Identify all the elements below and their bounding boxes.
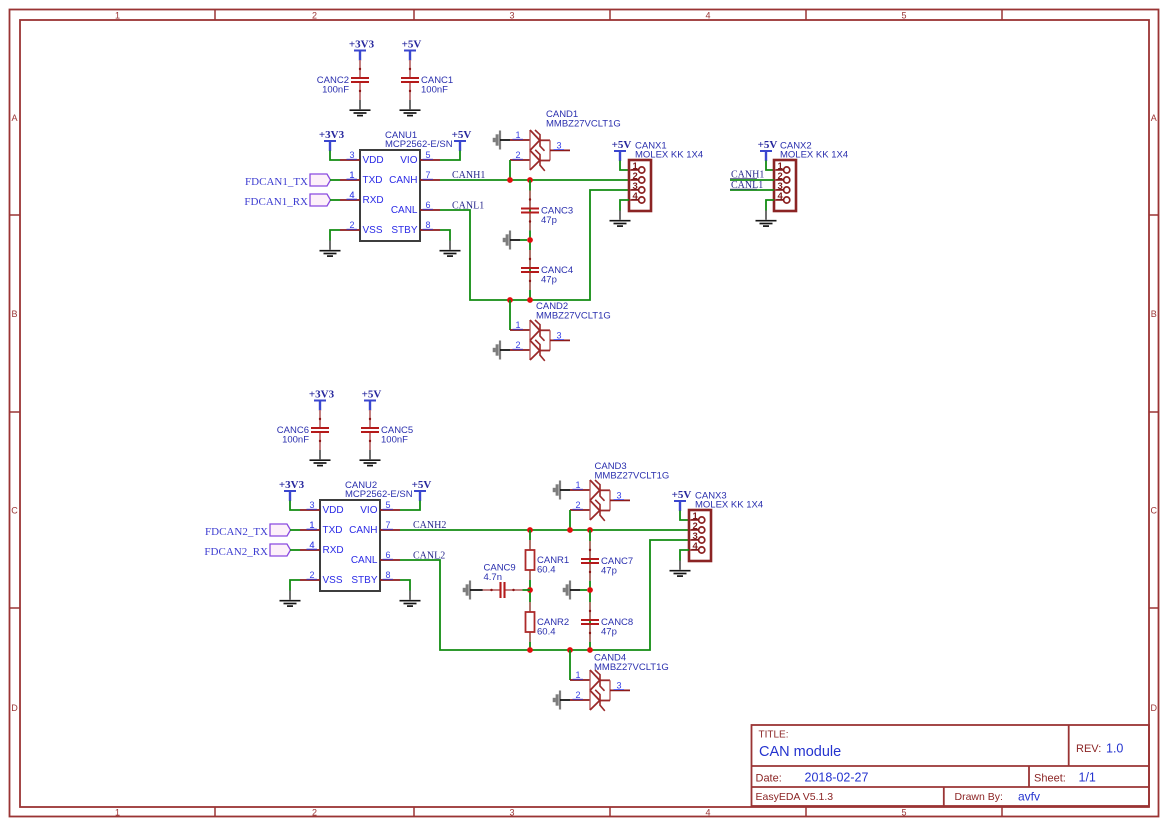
svg-text:5: 5	[425, 150, 430, 160]
svg-text:8: 8	[385, 570, 390, 580]
svg-text:1: 1	[515, 130, 520, 140]
svg-text:A: A	[1151, 113, 1157, 123]
power flag +3V3	[309, 389, 335, 411]
capacitor CANC9 4.7n	[483, 563, 523, 599]
svg-text:TXD: TXD	[363, 175, 383, 186]
svg-text:4: 4	[633, 191, 639, 202]
junction CANH1/CANC3	[527, 177, 533, 183]
wire VSS to ground	[330, 230, 340, 241]
wire CANC chain	[589, 530, 591, 650]
wire CANH2	[400, 529, 689, 531]
title block	[752, 725, 1150, 806]
net label CANH2	[413, 520, 446, 531]
TVS diode CAND2 MMBZ27VCLT1G	[510, 301, 611, 361]
capacitor CANC3 47p	[521, 191, 573, 231]
svg-text:EasyEDA V5.1.3: EasyEDA V5.1.3	[756, 791, 834, 803]
connector CANX3 MOLEX KK 1X4	[689, 491, 763, 562]
svg-text:1: 1	[115, 11, 120, 21]
svg-text:3: 3	[556, 331, 561, 341]
ground CANX2	[756, 211, 777, 227]
junction CANR1/CANR2/CANC9	[527, 587, 533, 593]
svg-text:2018-02-27: 2018-02-27	[805, 771, 869, 785]
svg-text:4.7n: 4.7n	[484, 572, 503, 583]
svg-text:2: 2	[515, 150, 520, 160]
power flag +3V3	[319, 129, 345, 151]
svg-text:CANL: CANL	[351, 555, 378, 566]
ground flag CANC3/CANC4	[504, 231, 520, 250]
wire FDCAN1_TX stub	[330, 179, 340, 181]
svg-text:Date:: Date:	[756, 773, 782, 785]
svg-text:7: 7	[385, 520, 390, 530]
svg-text:A: A	[11, 113, 17, 123]
frame column ticks bottom	[215, 807, 1002, 817]
svg-text:1: 1	[515, 320, 520, 330]
svg-text:2: 2	[575, 500, 580, 510]
capacitor CANC7 47p	[581, 541, 633, 581]
net port FDCAN1_TX	[245, 174, 330, 188]
svg-text:CANH1: CANH1	[452, 170, 485, 181]
svg-text:RXD: RXD	[363, 195, 384, 206]
svg-text:1: 1	[575, 670, 580, 680]
wire FDCAN2_RX stub	[290, 549, 300, 551]
svg-text:CANH2: CANH2	[413, 520, 446, 531]
power flag +3V3	[279, 479, 305, 501]
wire CANH1	[440, 179, 629, 181]
svg-text:4: 4	[705, 11, 710, 21]
svg-text:3: 3	[509, 11, 514, 21]
svg-text:2: 2	[312, 808, 317, 818]
net port FDCAN2_TX	[205, 524, 290, 538]
svg-text:MMBZ27VCLT1G: MMBZ27VCLT1G	[594, 662, 669, 673]
svg-text:1: 1	[115, 808, 120, 818]
frame column ticks top	[215, 10, 1002, 20]
svg-text:5: 5	[901, 11, 906, 21]
svg-text:4: 4	[705, 808, 710, 818]
net label CANL2	[413, 551, 445, 562]
wire VSS to ground CANU2	[290, 580, 300, 591]
wire +5V to VIO CANU2	[400, 501, 420, 511]
svg-text:+5V: +5V	[452, 129, 472, 141]
frame row letters left	[11, 113, 18, 713]
svg-text:STBY: STBY	[391, 225, 417, 236]
svg-text:2: 2	[515, 340, 520, 350]
svg-text:VSS: VSS	[323, 575, 343, 586]
svg-text:MOLEX KK 1X4: MOLEX KK 1X4	[780, 150, 848, 161]
svg-text:3: 3	[349, 150, 354, 160]
svg-text:5: 5	[385, 500, 390, 510]
svg-text:Drawn By:: Drawn By:	[955, 791, 1003, 803]
svg-text:FDCAN2_RX: FDCAN2_RX	[204, 546, 268, 558]
svg-text:FDCAN1_TX: FDCAN1_TX	[245, 176, 308, 188]
IC CANU2 MCP2562-E/SN	[300, 480, 413, 591]
wire CANH1 stub CANX2	[730, 179, 774, 181]
svg-text:Sheet:: Sheet:	[1034, 773, 1066, 785]
svg-text:+5V: +5V	[362, 389, 382, 401]
svg-text:RXD: RXD	[323, 545, 344, 556]
wire CANH1 to CANL1 cap chain	[529, 180, 531, 300]
svg-text:4: 4	[349, 190, 354, 200]
svg-text:100nF: 100nF	[322, 85, 349, 96]
resistor CANR1 60.4	[526, 540, 570, 580]
junction CANH2/CANR1	[527, 527, 533, 533]
ground CANX3	[670, 561, 691, 577]
svg-text:3: 3	[556, 141, 561, 151]
TVS diode CAND1 MMBZ27VCLT1G	[510, 109, 621, 171]
svg-text:4: 4	[309, 540, 314, 550]
ground flag CAND1 pin1	[494, 131, 510, 150]
ground flag CAND3 pin1	[554, 481, 570, 500]
wire CAND1 pin2 to CANH1	[509, 160, 511, 180]
wire +5V to CANX1 pin1	[620, 161, 629, 171]
svg-text:TXD: TXD	[323, 525, 343, 536]
svg-text:1/1: 1/1	[1079, 771, 1096, 785]
junction CANC7/CANC8	[587, 587, 593, 593]
ground VSS CANU1	[320, 241, 341, 257]
svg-text:MCP2562-E/SN: MCP2562-E/SN	[345, 489, 413, 500]
svg-text:47p: 47p	[541, 215, 557, 226]
capacitor CANC8 47p	[581, 602, 633, 642]
svg-text:1.0: 1.0	[1106, 742, 1123, 756]
capacitor CANC1 100nF	[401, 60, 453, 100]
svg-text:D: D	[1151, 703, 1158, 713]
wire CAND2 pin1 from CANL1	[509, 300, 511, 330]
ground flag CAND4 pin2	[554, 691, 570, 710]
svg-text:3: 3	[309, 500, 314, 510]
svg-text:VIO: VIO	[400, 155, 417, 166]
svg-text:6: 6	[385, 550, 390, 560]
junction CANL1/CANC4	[527, 297, 533, 303]
svg-text:CANL2: CANL2	[413, 551, 445, 562]
net label CANH1	[452, 170, 485, 181]
svg-text:7: 7	[425, 170, 430, 180]
ground flag CAND2 pin2	[494, 341, 510, 360]
svg-text:+5V: +5V	[612, 139, 632, 151]
title block texts	[756, 730, 1124, 804]
wire STBY to ground CANU2	[400, 580, 410, 591]
wire +3V3 to VDD	[330, 151, 340, 161]
svg-text:CAN module: CAN module	[759, 744, 841, 760]
power flag +5V	[672, 489, 692, 511]
svg-text:1: 1	[309, 520, 314, 530]
wire CAND3 pin2 to CANH2	[569, 510, 571, 530]
net label CANH1	[730, 170, 764, 181]
svg-text:3: 3	[616, 491, 621, 501]
svg-text:2: 2	[349, 220, 354, 230]
net port FDCAN2_RX	[204, 544, 290, 558]
svg-text:B: B	[1151, 309, 1157, 319]
svg-text:VDD: VDD	[363, 155, 384, 166]
ground below CANC2	[350, 100, 371, 116]
svg-text:VSS: VSS	[363, 225, 383, 236]
svg-text:TITLE:: TITLE:	[759, 730, 789, 741]
svg-text:+3V3: +3V3	[279, 479, 305, 491]
svg-text:CANH: CANH	[389, 175, 417, 186]
wire CANL1 stub CANX2	[730, 189, 774, 191]
wire CANR chain	[529, 530, 531, 650]
svg-text:+3V3: +3V3	[309, 389, 335, 401]
svg-text:+3V3: +3V3	[319, 129, 345, 141]
connector CANX2 MOLEX KK 1X4	[774, 141, 848, 212]
svg-text:MMBZ27VCLT1G: MMBZ27VCLT1G	[546, 119, 621, 130]
frame column numbers top	[115, 11, 907, 21]
wire CANX3 pin4 to ground	[680, 550, 689, 561]
svg-text:1: 1	[575, 480, 580, 490]
svg-text:VIO: VIO	[360, 505, 377, 516]
svg-text:MCP2562-E/SN: MCP2562-E/SN	[385, 139, 453, 150]
svg-text:REV:: REV:	[1076, 743, 1101, 755]
svg-text:4: 4	[693, 541, 699, 552]
power flag +5V	[412, 479, 432, 501]
IC CANU1 MCP2562-E/SN	[340, 130, 453, 241]
svg-text:3: 3	[616, 681, 621, 691]
ground CANX1	[610, 211, 631, 227]
svg-text:+5V: +5V	[758, 139, 778, 151]
svg-text:B: B	[11, 309, 17, 319]
junction CANH1/CAND1	[507, 177, 513, 183]
wire flag to CANC9	[480, 589, 483, 591]
svg-text:47p: 47p	[541, 275, 557, 286]
svg-text:100nF: 100nF	[381, 435, 408, 446]
capacitor CANC2 100nF	[317, 60, 369, 100]
net port FDCAN1_RX	[244, 194, 330, 208]
svg-text:VDD: VDD	[323, 505, 344, 516]
wire CANX1 pin4 to ground	[620, 200, 629, 211]
svg-text:MMBZ27VCLT1G: MMBZ27VCLT1G	[536, 311, 611, 322]
junction CANL2/CANR2	[527, 647, 533, 653]
junction CANH2/CAND3	[567, 527, 573, 533]
svg-text:CANL: CANL	[391, 205, 418, 216]
svg-text:C: C	[11, 506, 18, 516]
wire flag to chain	[520, 239, 527, 241]
frame row ticks left	[10, 215, 20, 608]
wire CANC9 to center tap	[523, 589, 531, 591]
ground flag CANC7/CANC8	[564, 581, 580, 600]
svg-text:FDCAN1_RX: FDCAN1_RX	[244, 196, 308, 208]
wire +5V to CANX2 pin1	[766, 161, 774, 171]
svg-text:+3V3: +3V3	[349, 39, 375, 51]
wire CANX2 pin4 to ground	[766, 200, 774, 211]
net label CANL1	[730, 180, 763, 191]
frame row ticks right	[1149, 215, 1159, 608]
ground flag CANC9	[464, 581, 480, 600]
svg-text:1: 1	[349, 170, 354, 180]
svg-text:100nF: 100nF	[282, 435, 309, 446]
power flag +5V	[362, 389, 382, 411]
wire FDCAN1_RX stub	[330, 199, 340, 201]
ground below CANC5	[360, 450, 381, 466]
svg-text:C: C	[1151, 506, 1158, 516]
wire +5V to CANX3 pin1	[680, 511, 689, 521]
ground below CANC1	[400, 100, 421, 116]
svg-text:2: 2	[575, 690, 580, 700]
power flag +5V	[758, 139, 778, 161]
svg-text:47p: 47p	[601, 627, 617, 638]
svg-text:STBY: STBY	[351, 575, 377, 586]
svg-text:+5V: +5V	[412, 479, 432, 491]
capacitor CANC4 47p	[521, 250, 573, 290]
svg-text:5: 5	[901, 808, 906, 818]
svg-text:4: 4	[778, 191, 784, 202]
TVS diode CAND3 MMBZ27VCLT1G	[570, 461, 669, 521]
power flag +5V	[612, 139, 632, 161]
junction CANH2/CANC7	[587, 527, 593, 533]
junction CANC3/CANC4	[527, 237, 533, 243]
power flag +5V	[402, 39, 422, 61]
TVS diode CAND4 MMBZ27VCLT1G	[570, 653, 669, 711]
svg-text:2: 2	[312, 11, 317, 21]
connector CANX1 MOLEX KK 1X4	[629, 141, 703, 212]
wire +3V3 to VDD CANU2	[290, 501, 300, 511]
ground STBY CANU1	[440, 241, 461, 257]
svg-text:D: D	[11, 703, 18, 713]
svg-text:8: 8	[425, 220, 430, 230]
svg-text:MOLEX KK 1X4: MOLEX KK 1X4	[695, 500, 763, 511]
resistor CANR2 60.4	[526, 602, 570, 642]
wire CANL2	[400, 540, 689, 650]
svg-text:60.4: 60.4	[537, 565, 556, 576]
wire STBY to ground	[440, 230, 450, 241]
svg-text:47p: 47p	[601, 566, 617, 577]
svg-text:+5V: +5V	[672, 489, 692, 501]
svg-text:2: 2	[309, 570, 314, 580]
svg-text:CANL1: CANL1	[452, 201, 484, 212]
net label CANL1	[452, 201, 484, 212]
svg-text:+5V: +5V	[402, 39, 422, 51]
svg-text:3: 3	[509, 808, 514, 818]
ground below CANC6	[310, 450, 331, 466]
capacitor CANC5 100nF	[361, 410, 413, 450]
frame column numbers bottom	[115, 808, 907, 818]
capacitor CANC6 100nF	[277, 410, 329, 450]
svg-text:CANH: CANH	[349, 525, 377, 536]
svg-text:6: 6	[425, 200, 430, 210]
svg-text:100nF: 100nF	[421, 85, 448, 96]
wire FDCAN2_TX stub	[290, 529, 300, 531]
svg-text:avfv: avfv	[1018, 790, 1040, 804]
junction CANL1/CAND2	[507, 297, 513, 303]
ground STBY CANU2	[400, 591, 421, 607]
power flag +5V	[452, 129, 472, 151]
wire CANL1	[440, 190, 629, 300]
junction CANL2/CAND4	[567, 647, 573, 653]
svg-text:MOLEX KK 1X4: MOLEX KK 1X4	[635, 150, 703, 161]
svg-text:MMBZ27VCLT1G: MMBZ27VCLT1G	[595, 471, 670, 482]
svg-text:60.4: 60.4	[537, 627, 556, 638]
wire +5V to VIO	[440, 151, 460, 161]
power flag +3V3	[349, 39, 375, 61]
frame row letters right	[1151, 113, 1158, 713]
junction CANL2/CANC8	[587, 647, 593, 653]
wire flag to chain	[580, 589, 587, 591]
svg-text:FDCAN2_TX: FDCAN2_TX	[205, 526, 268, 538]
ground VSS CANU2	[280, 591, 301, 607]
wire CAND4 pin1 from CANL2	[569, 650, 571, 680]
